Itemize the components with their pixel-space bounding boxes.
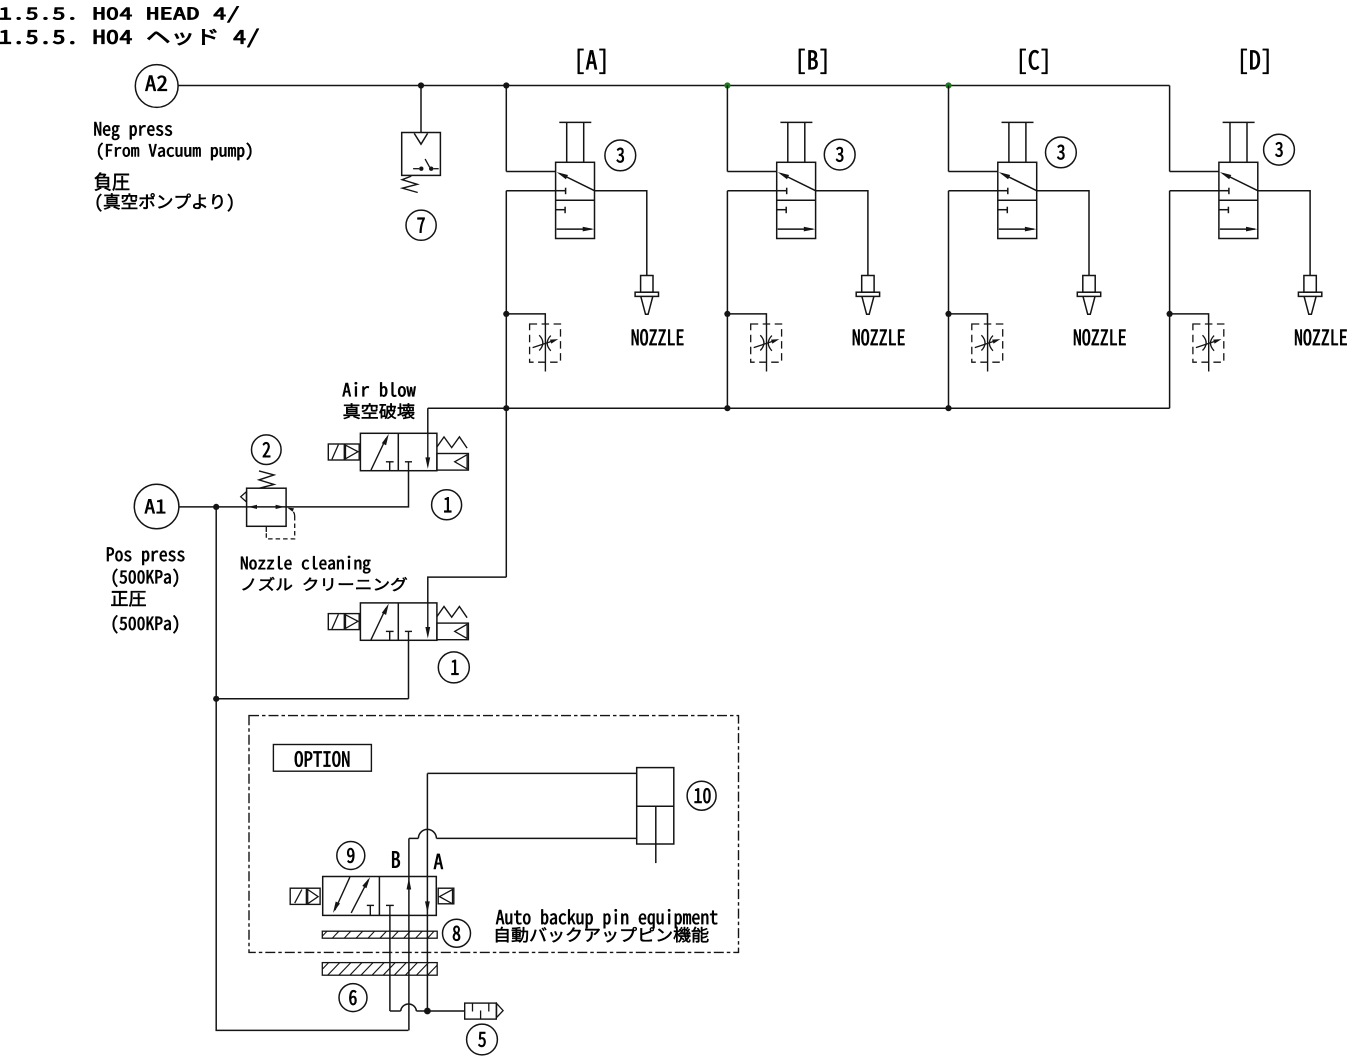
speed controller D xyxy=(1193,324,1224,362)
head valve B bottom cell blocked port xyxy=(777,209,787,211)
wire branch D valve side port xyxy=(1170,190,1219,192)
wire branch B to valve inlet xyxy=(727,171,776,173)
air blow valve V1a solenoid xyxy=(328,444,359,460)
label circle 3 branch D xyxy=(1264,134,1295,165)
head valve A top cell blocked port xyxy=(556,190,566,192)
wire port A1 to regulator xyxy=(179,506,286,508)
wire branch A to valve inlet xyxy=(506,171,555,173)
junction manifold C xyxy=(945,405,951,411)
title text line 2 xyxy=(0,29,258,47)
wire air blow valve supply xyxy=(286,471,408,507)
head valve A body xyxy=(556,162,595,238)
wire air blow valve outlet up to manifold xyxy=(427,408,429,433)
regulator R2 flow arrows xyxy=(248,505,257,509)
junction manifold A xyxy=(503,405,509,411)
nozzle D xyxy=(1304,276,1316,293)
OPTION label box xyxy=(273,745,371,772)
junction on bus at vacuum switch xyxy=(418,82,424,88)
label circle 5 xyxy=(467,1024,498,1055)
wire supply through valve 9 xyxy=(408,838,410,1030)
head valve A bottom cell flow arrow xyxy=(557,228,592,230)
nozzle cleaning valve V1b body xyxy=(360,603,437,640)
nozzle cleaning valve V1b return spring xyxy=(437,607,467,618)
wire branch A down to air-blow manifold xyxy=(505,191,507,409)
head valve A top cell flow arrow xyxy=(560,174,595,191)
control valve V9 supply-to-B arrow xyxy=(407,878,412,890)
backup pin plate 8 hatched xyxy=(322,931,437,938)
head valve D bottom cell flow arrow xyxy=(1220,228,1255,230)
head valve D actuator xyxy=(1229,122,1231,162)
head valve B body xyxy=(777,162,816,238)
wire to speed controller B xyxy=(727,314,766,324)
air blow valve V1a left cell flow arrow xyxy=(371,439,386,471)
wire branch A valve outlet to nozzle xyxy=(595,191,647,276)
label (真空ポンプより) xyxy=(97,193,233,211)
nozzle A xyxy=(641,276,653,293)
control valve V9 body xyxy=(323,877,437,916)
label B port xyxy=(392,851,400,867)
label Pos press xyxy=(107,547,184,565)
head valve C top cell blocked port xyxy=(998,190,1008,192)
wire branch B valve side port xyxy=(727,190,776,192)
junction supply split xyxy=(213,696,219,702)
label circle 3 branch B xyxy=(824,139,855,170)
wire branch C to valve inlet xyxy=(949,171,998,173)
cylinder CYL10 body xyxy=(637,768,674,844)
label NOZZLE D xyxy=(1295,329,1347,345)
head valve A actuator xyxy=(566,122,568,162)
label Neg press xyxy=(94,122,172,140)
label 正圧 xyxy=(111,591,145,607)
label circle 7 xyxy=(406,210,436,240)
wire nozzle cleaning valve supply xyxy=(408,640,410,699)
wire to speed controller A xyxy=(506,314,545,324)
port A1 (positive pressure source) xyxy=(134,484,179,529)
junction A1 branch xyxy=(213,504,219,510)
head valve C bottom cell blocked port xyxy=(998,209,1008,211)
wire supply down to option circuit xyxy=(216,699,408,1031)
label circle 1 nozzle cleaning xyxy=(438,652,469,683)
OPTION enclosure dash-dot box xyxy=(249,716,739,953)
wire branch D to valve inlet xyxy=(1170,171,1219,173)
label circle 3 branch C xyxy=(1046,137,1077,168)
junction manifold B xyxy=(724,405,730,411)
head valve D top cell flow arrow xyxy=(1223,174,1258,191)
label NOZZLE A xyxy=(632,329,684,345)
head valve C actuator xyxy=(1008,122,1010,162)
head valve D bottom cell blocked port xyxy=(1219,209,1229,211)
regulator R2 relief vent xyxy=(241,492,247,502)
label ノズル クリーニング xyxy=(242,577,407,591)
label circle 1 air blow xyxy=(432,490,462,520)
wire nozzle cleaning valve outlet xyxy=(428,577,507,603)
wire vacuum bus xyxy=(178,85,1170,87)
junction exhaust xyxy=(424,1008,431,1015)
regulator R2 adjusting spring xyxy=(259,471,274,488)
label A port xyxy=(434,854,443,869)
speed controller C xyxy=(972,324,1003,362)
label (From Vacuum pump) xyxy=(98,143,251,160)
nozzle C xyxy=(1083,276,1095,293)
head valve D top cell blocked port xyxy=(1219,190,1229,192)
label Nozzle cleaning xyxy=(241,556,370,574)
head valve C body xyxy=(998,162,1037,238)
head valve A bottom cell blocked port xyxy=(556,209,566,211)
label circle 10 xyxy=(687,781,716,810)
regulator R2 pilot feedback dashed xyxy=(265,526,267,532)
wire branch B down to air-blow manifold xyxy=(726,191,728,409)
junction branch A speed controller tap xyxy=(503,311,509,317)
control valve V9 A-to-exhaust arrow xyxy=(425,901,430,913)
control valve V9 pilot box xyxy=(438,888,454,904)
wire to speed controller C xyxy=(949,314,988,324)
wire branch D down to air-blow manifold xyxy=(1169,191,1171,409)
air blow valve V1a right cell exhaust arrow xyxy=(427,433,429,466)
speed controller A xyxy=(530,324,561,362)
wire supply to nozzle cleaning valve xyxy=(216,698,408,700)
label circle 3 branch A xyxy=(605,140,636,171)
nozzle cleaning valve V1b right cell blocked port xyxy=(405,630,412,632)
wire supply branch down xyxy=(215,507,217,699)
air blow valve V1a return spring xyxy=(437,437,467,448)
head valve B top cell flow arrow xyxy=(781,174,816,191)
wire branch D drop from bus xyxy=(1169,86,1171,172)
label Auto backup pin equipment xyxy=(496,909,717,928)
nozzle cleaning valve V1b right cell exhaust arrow xyxy=(427,603,429,636)
base plate 6 hatched xyxy=(322,963,437,976)
label (500KPa) upper xyxy=(113,569,178,587)
label NOZZLE C xyxy=(1074,329,1126,345)
label 負圧 xyxy=(95,173,130,191)
nozzle cleaning valve V1b left cell flow arrow xyxy=(371,608,386,640)
wire branch C down to air-blow manifold xyxy=(948,191,950,409)
label [D] xyxy=(1241,49,1268,74)
label 自動バックアップピン機能 xyxy=(496,927,709,943)
air blow valve V1a right cell blocked port xyxy=(405,461,412,463)
speed controller B xyxy=(751,324,782,362)
wire branch B valve outlet to nozzle xyxy=(816,191,868,276)
head valve B actuator xyxy=(787,122,789,162)
wire branch C valve outlet to nozzle xyxy=(1037,191,1089,276)
label NOZZLE B xyxy=(853,329,905,345)
junction bus branch C xyxy=(945,82,951,88)
wire manifold down to nozzle cleaning line xyxy=(505,408,507,577)
wire exhaust manifold with hop xyxy=(390,1010,401,1012)
junction branch D speed controller tap xyxy=(1167,311,1173,317)
label (500KPa) lower xyxy=(113,615,178,633)
cylinder CYL10 rod xyxy=(655,806,657,863)
label [B] xyxy=(799,49,826,74)
regulator R2 body xyxy=(247,488,287,526)
label Air blow xyxy=(343,382,416,397)
control valve V9 solenoid xyxy=(290,888,320,904)
wire exhaust port down xyxy=(389,915,391,1011)
wire air-blow manifold xyxy=(428,407,1170,409)
wire branch A drop from bus xyxy=(505,86,507,172)
wire branch C drop from bus xyxy=(948,86,950,172)
vacuum switch PS7 contacts xyxy=(413,168,419,170)
label circle 8 xyxy=(443,919,471,947)
vacuum switch PS7 body xyxy=(402,133,441,176)
junction branch B speed controller tap xyxy=(724,311,730,317)
junction bus branch A xyxy=(503,82,509,88)
nozzle cleaning valve V1b solenoid xyxy=(328,614,359,630)
wire port A valve9 to cylinder xyxy=(427,772,636,774)
wire branch A valve side port xyxy=(506,190,555,192)
label circle 2 xyxy=(251,435,281,465)
air blow valve V1a pilot box xyxy=(437,454,469,471)
head valve B bottom cell flow arrow xyxy=(778,228,813,230)
label [A] xyxy=(578,49,605,74)
head valve C top cell flow arrow xyxy=(1002,174,1037,191)
wire port B valve9 to cylinder with crossover hop xyxy=(409,837,419,839)
wire branch D valve outlet to nozzle xyxy=(1258,191,1310,276)
silencer SIL5 xyxy=(465,1003,497,1019)
wire to vacuum switch xyxy=(420,86,422,133)
head valve D body xyxy=(1219,162,1258,238)
wire to speed controller D xyxy=(1170,314,1209,324)
label circle 6 xyxy=(339,984,367,1012)
head valve C bottom cell flow arrow xyxy=(999,228,1034,230)
control valve V9 left cell crossed flows xyxy=(335,877,350,910)
nozzle B xyxy=(862,276,874,293)
junction bus branch B xyxy=(724,82,730,88)
nozzle cleaning valve V1b pilot box xyxy=(437,623,469,640)
vacuum switch PS7 inlet chevron xyxy=(414,133,427,144)
air blow valve V1a body xyxy=(360,433,437,470)
vacuum switch PS7 spring xyxy=(402,176,418,192)
air blow valve V1a left cell blocked port xyxy=(386,461,394,463)
label circle 9 xyxy=(337,842,365,870)
junction branch C speed controller tap xyxy=(945,311,951,317)
label [C] xyxy=(1020,49,1047,74)
control valve V9 left cell blocked port xyxy=(367,904,374,906)
label 真空破壊 xyxy=(344,403,415,419)
wire branch B drop from bus xyxy=(726,86,728,172)
title text line 1 xyxy=(0,6,238,22)
control valve V9 right cell blocked port xyxy=(386,904,394,906)
port A2 (vacuum source) xyxy=(135,65,178,108)
head valve B top cell blocked port xyxy=(777,190,787,192)
nozzle cleaning valve V1b left cell blocked port xyxy=(386,630,394,632)
wire branch C valve side port xyxy=(949,190,998,192)
